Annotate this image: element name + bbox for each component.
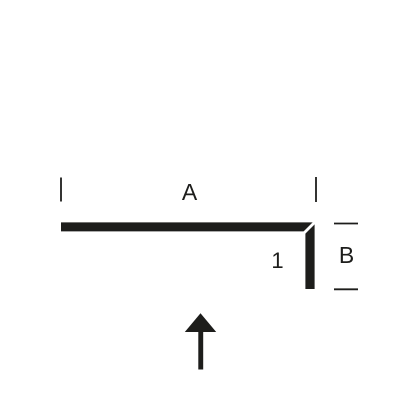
svg-text:A: A <box>182 179 198 205</box>
dimension tick B top <box>334 223 358 225</box>
bend line (white miter split at bend 1) <box>302 219 319 236</box>
view direction arrow head <box>185 313 216 332</box>
svg-text:1: 1 <box>271 248 283 273</box>
dimension tick A right <box>315 177 317 202</box>
dimension tick A left <box>60 178 62 202</box>
dimension tick B bottom <box>334 288 358 290</box>
view direction arrow stem <box>198 332 203 370</box>
svg-text:B: B <box>339 242 354 268</box>
profile segment A (horizontal bar) and segment B (vertical bar), mitered corner <box>61 222 315 289</box>
